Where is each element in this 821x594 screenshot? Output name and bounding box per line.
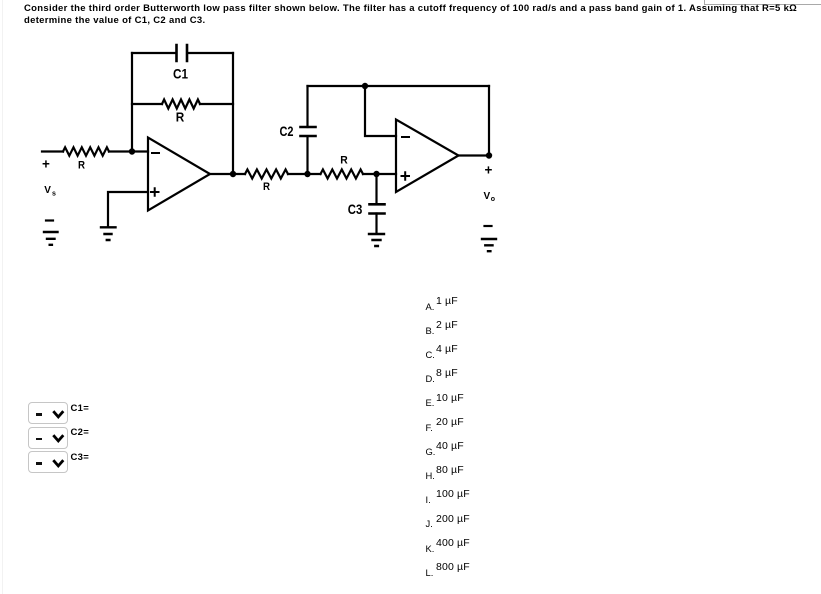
wire top left to C1 (132, 52, 176, 54)
resistor R (input series) (63, 147, 109, 155)
option L (426, 568, 434, 577)
wire input lead (42, 150, 63, 152)
ground (input terminal) (44, 232, 58, 245)
option K (426, 544, 435, 553)
ground (output terminal) (482, 239, 496, 251)
capacitor C2 (301, 127, 316, 136)
svg-text:R: R (263, 181, 270, 193)
wire feedback R left lead (132, 103, 162, 105)
option C (426, 350, 435, 359)
node at U1 inverting input / feedback tap (129, 148, 135, 154)
dropdown select C2 (28, 427, 68, 449)
svg-text:s: s (52, 190, 56, 197)
op-amp U1 (148, 138, 210, 211)
wire U1 output (210, 173, 245, 175)
U2 minus mark (402, 136, 409, 138)
wire resistor to op-amp U1 inverting input (109, 150, 148, 152)
node C3 tap (373, 171, 379, 177)
wire top feedback (U2 output to C2) (308, 85, 490, 87)
resistor R (between stages, second) (321, 170, 364, 179)
label minus (output terminal) (485, 225, 492, 227)
label Vs (44, 185, 56, 197)
label C1 (173, 66, 188, 82)
wire C3 lower lead (375, 214, 377, 234)
faint left page edge (2, 0, 3, 594)
label R (first mid resistor) (263, 181, 270, 193)
svg-text:V: V (44, 185, 51, 196)
wire feedback R right lead (200, 103, 233, 105)
svg-text:C2: C2 (280, 124, 294, 139)
wire C3 upper lead (375, 174, 377, 203)
wire C2 lower lead (306, 137, 308, 174)
op-amp U2 (396, 120, 459, 193)
label minus (input terminal) (46, 219, 53, 221)
U2 plus mark (402, 172, 410, 180)
option A (426, 302, 435, 311)
svg-text:+: + (42, 157, 50, 172)
svg-text:C3: C3 (348, 202, 363, 217)
svg-text:V: V (484, 191, 491, 202)
node U2 output (486, 152, 492, 158)
option F (426, 423, 433, 432)
label R (second mid resistor) (340, 155, 348, 167)
node C2 tap (304, 171, 310, 177)
svg-text:R: R (78, 160, 85, 172)
top-right gray rule (cropped panel corner) (704, 0, 821, 5)
label R (feedback) (176, 111, 185, 125)
wire C1 to right vertical (188, 52, 234, 54)
wire U2 output (459, 154, 490, 156)
dropdown select C3 (28, 451, 68, 473)
option H (426, 471, 435, 480)
svg-text:R: R (340, 155, 348, 167)
wire feedback left vertical (131, 53, 133, 152)
svg-text:R: R (176, 111, 185, 125)
U1 minus mark (152, 152, 159, 154)
U1 plus mark (151, 188, 159, 196)
node top feedback tap (362, 83, 368, 89)
label + (input terminal) (42, 157, 50, 172)
wire C2 upper lead (306, 86, 308, 127)
label C3 (348, 202, 363, 217)
option G (426, 447, 436, 456)
option I (426, 495, 431, 504)
label + (output terminal) (485, 162, 493, 177)
wire tap down to U2 inverting input (365, 86, 396, 136)
dropdown select C1 (28, 402, 68, 424)
option B (426, 326, 435, 335)
resistor R (between stages, first) (245, 170, 288, 179)
label Vo (484, 191, 496, 203)
option J (426, 519, 433, 528)
svg-text:+: + (485, 162, 493, 177)
question text (24, 3, 797, 26)
capacitor C3 (370, 204, 385, 213)
wire feedback right vertical (232, 53, 234, 174)
resistor R (feedback) (162, 100, 200, 109)
wire second resistor to U2 noninverting input (363, 173, 396, 175)
wire between mid resistors (288, 173, 321, 175)
wire U1 noninverting input to ground (108, 192, 148, 226)
node U1 output / feedback junction (230, 171, 236, 177)
label R (input series) (78, 160, 85, 172)
ground (C3) (369, 234, 384, 246)
ground (U1 + input) (101, 227, 116, 240)
svg-text:o: o (491, 196, 495, 203)
capacitor C1 (177, 45, 188, 61)
option D (426, 374, 435, 383)
wire U2 output feedback vertical (488, 86, 490, 156)
option E (426, 398, 435, 407)
label C2 (280, 124, 294, 139)
svg-text:C1: C1 (173, 66, 188, 82)
